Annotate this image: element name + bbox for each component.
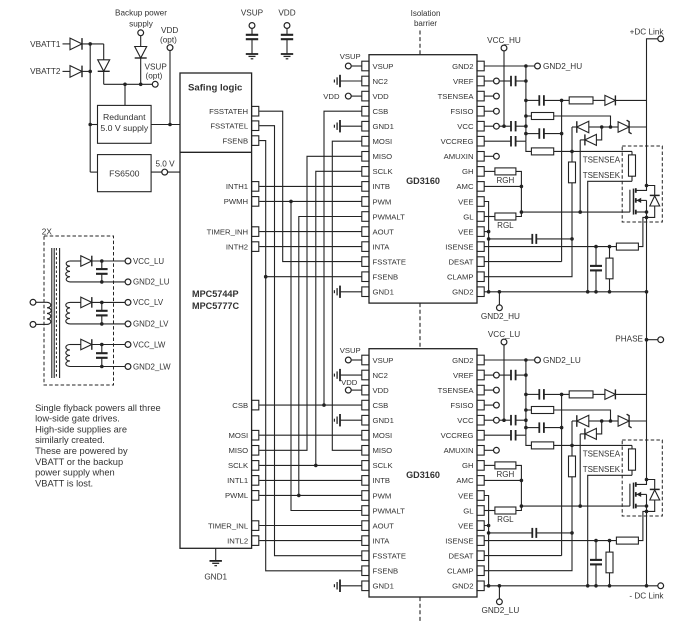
U1 left pin MISO (row 7) [362,152,369,162]
svg-text:FSENB: FSENB [373,273,399,282]
power module dashed box U2 [622,440,662,516]
svg-text:supply: supply [129,20,154,29]
resistor gate clamp upper U1 [531,113,553,120]
IGBT/MOSFET U1 module [629,190,631,212]
U1 left pin FSSTATE (row 14) [362,257,369,267]
wire U2 FSISO pin [485,404,494,406]
svg-text:ISENSE: ISENSE [445,242,473,251]
wire U2 VCCREG row [485,434,512,436]
svg-text:GND2: GND2 [452,356,473,365]
svg-text:TIMER_INH: TIMER_INH [207,227,248,236]
diode DESAT high-voltage U1 [593,99,605,101]
capacitor VCCREG-GND2 U2 [510,430,512,441]
svg-text:These are powered by: These are powered by [35,446,128,456]
diode D2 VBATT2 [63,70,71,72]
svg-text:- DC Link: - DC Link [629,592,664,601]
svg-text:GND1: GND1 [373,582,394,591]
svg-text:Backup power: Backup power [115,9,167,18]
U2 VCC test point [494,417,500,423]
GND2_LU terminal [535,357,541,363]
GND2 bus jog to clamp resistor U1 [526,141,532,151]
wire shunt to source U1 [638,217,646,246]
U2 GND1 ground (upper) [340,419,362,421]
transformer core [51,248,53,378]
wire MOSI to U2 [259,434,361,436]
diode D1 VBATT1 [63,43,71,45]
U1 left pin GND1 (row 16) [362,287,369,297]
svg-text:GND2_HU: GND2_HU [543,62,582,71]
TSENSEA wire U1 [572,150,632,152]
U2 right pin VCC (row 5) [477,415,484,425]
diode rectifier VCC_LU [70,260,81,262]
diode D4 backup [140,36,142,47]
diode D3 to VSUP opt [103,44,105,60]
svg-text:GL: GL [463,506,474,515]
svg-text:(opt): (opt) [160,35,177,44]
wire INTH1 to U1 INTB [259,185,361,187]
U2 VREF test point [494,372,500,378]
wire DESAT vertical U1 [561,100,563,261]
wire FSSTATEH net [259,111,361,261]
wire U1 VEE2 row [485,231,489,233]
svg-text:High-side supplies are: High-side supplies are [35,424,127,434]
-DC Link terminal [658,583,664,589]
U2 left pin VDD (row 3) [362,385,369,395]
svg-text:VCC_LW: VCC_LW [133,340,166,349]
U1 right pin AMUXIN (row 7) [477,152,484,162]
wire PWML net [259,494,361,496]
U1 GND1 ground (lower) [340,291,362,293]
svg-text:VCCREG: VCCREG [441,431,474,440]
U2 right pin VEE (row 10) [477,491,484,501]
svg-text:GH: GH [462,167,474,176]
clamp resistor vertical U1 [569,162,576,183]
shunt resistor ISENSE U2 [616,537,638,544]
capacitor VCC-GND2 U1 [499,125,511,127]
U1 left pin INTA (row 13) [362,242,369,252]
wire FSENB to U1 [266,276,362,278]
wire VBATT to redundant supply [90,124,97,126]
wire VCC_LU rail [92,260,125,262]
svg-text:VSUP: VSUP [340,52,361,61]
wire shunt to source U2 [638,511,646,540]
svg-text:VSUP: VSUP [373,356,394,365]
wire PWML to U1 PWMALT [299,217,362,496]
capacitor filter VCC_LV [101,302,103,310]
svg-text:CSB: CSB [373,107,389,116]
wire U2 ISENSE row [485,540,617,542]
terminal backup power [138,30,144,36]
capacitor VEE-clamp U1 [489,238,533,240]
svg-text:VCC: VCC [457,122,474,131]
svg-text:DESAT: DESAT [448,551,473,560]
svg-text:TSENSEA: TSENSEA [438,92,475,101]
U2 right pin VREF (row 2) [477,370,484,380]
svg-text:MPC5777C: MPC5777C [192,301,239,311]
terminal 5.0V [162,169,168,175]
U2 left pin MOSI (row 6) [362,430,369,440]
U3 pin INTL1 [252,476,259,486]
U2 left pin GND1 (row 5) [362,415,369,425]
wire node to redundant supply [124,84,126,105]
U1 GND1 ground (upper) [340,125,362,127]
capacitor VREF-GND2 U2 [499,374,511,376]
svg-text:SCLK: SCLK [373,167,394,176]
wire VCC_LW rail [92,344,125,346]
wire clamp vertical to CLAMP pin U1 [485,239,573,277]
wire clamp D2 anode riser U1 [596,127,601,140]
svg-text:AMUXIN: AMUXIN [444,446,474,455]
resistor RGH U2 [485,464,495,466]
shunt resistor ISENSE U1 [616,243,638,250]
wire resistor row to zener row U1 [554,116,611,127]
transformer secondary winding VCC_LV [66,302,70,324]
svg-text:GND1: GND1 [373,288,394,297]
second cap row U1 [526,133,539,135]
svg-text:SCLK: SCLK [228,461,249,470]
U3 pin CSB [252,400,259,410]
terminal GND2_LW [125,364,131,370]
U1 left pin INTB (row 9) [362,182,369,192]
GND2_HU terminal [535,63,541,69]
zener clamp U1 [611,126,619,128]
GND2 bus vertical U1 [525,66,527,141]
resistor ISENSE divider U2 [609,541,611,553]
svg-text:5.0 V: 5.0 V [155,160,175,169]
transformer secondary winding VCC_LW [66,345,70,367]
wire U2 VEE2 row [485,525,489,527]
svg-text:FSISO: FSISO [450,401,473,410]
svg-text:GND2: GND2 [452,288,473,297]
clamp resistor vertical U2 [569,456,576,477]
wire U2 AMUXIN pin [485,449,494,451]
U3 pin FSSTATEL [252,121,259,131]
svg-text:INTA: INTA [373,242,391,251]
wire VSUP opt row [104,83,153,85]
ground for VDD cap [281,53,293,55]
U2 right pin AMUXIN (row 7) [477,446,484,456]
gate row wire U2 [521,505,630,507]
U1 right pin DESAT (row 14) [477,257,484,267]
U1 right pin VCCREG (row 6) [477,136,484,146]
svg-text:GND2: GND2 [452,582,473,591]
svg-text:GD3160: GD3160 [406,470,440,480]
wire FS6500 5.0V output [151,171,180,173]
microcontroller U3 MPC5744P/MPC5777C body [180,73,252,548]
svg-text:AMC: AMC [456,182,474,191]
U2 right pin FSISO (row 4) [477,400,484,410]
phase node bus [646,217,648,479]
TSENSEK wire U2 [588,475,632,586]
svg-text:FSENB: FSENB [373,567,399,576]
svg-text:MISO: MISO [373,446,393,455]
U2 left pin PWMALT (row 11) [362,506,369,516]
capacitor VREF-GND2 U1 [499,80,511,82]
resistor DESAT series U1 [569,97,593,104]
wire FSENB net [259,141,361,571]
U2 left pin INTA (row 13) [362,536,369,546]
svg-text:AOUT: AOUT [373,521,395,530]
U2 VSUP terminal [345,357,351,363]
wire U1 AMC row [485,185,522,187]
U2 right pin DESAT (row 14) [477,551,484,561]
U1 right pin VEE (row 12) [477,227,484,237]
svg-text:INTH2: INTH2 [226,242,248,251]
wire RGH to gate node U2 [516,465,522,480]
U2 right pin VCCREG (row 6) [477,430,484,440]
wire U1 FSISO pin [485,110,494,112]
svg-text:PWML: PWML [225,491,249,500]
VCC_LU terminal [501,339,507,345]
U3 pin PWML [252,491,259,501]
wire U1 VREF row [485,80,494,82]
wire gate node vertical U2 [520,480,522,506]
svg-text:INTL2: INTL2 [227,536,248,545]
wire INTL1 to U2 INTB [259,479,361,481]
svg-text:INTA: INTA [373,536,391,545]
svg-text:VCC_LU: VCC_LU [488,330,520,339]
wire CSB to U1 [324,111,362,405]
U2 right pin GND2 (row 16) [477,581,484,591]
DESAT blanking cap U1 [526,99,539,101]
U1 VDD terminal wire [351,95,361,97]
wire RGL to gate node U1 [516,212,522,216]
U2 VSUP terminal wire [351,359,361,361]
U2 GND1 ground (lower) [340,585,362,587]
freewheel diode U1 module [647,186,655,196]
wire VBATT2 to node [82,70,90,72]
capacitor VEE-clamp U2 [489,532,533,534]
U2 TSENSEA test point [494,387,500,393]
U3 pin INTL2 [252,536,259,546]
wire clamp vertical to CLAMP pin U2 [485,533,573,571]
U1 VSUP terminal [345,63,351,69]
gate driver IC U1 GD3160 body [369,55,477,303]
U2 FSISO test point [494,402,500,408]
svg-text:2X: 2X [42,227,53,236]
gate row wire U1 [521,211,630,213]
resistor GND2-to-clamp node U1 [531,148,553,155]
resistor GND2-to-clamp node U2 [531,442,553,449]
wire VBATT1 to node [82,43,104,45]
svg-text:VSUP: VSUP [241,9,264,18]
U2 left pin FSSTATE (row 14) [362,551,369,561]
svg-text:FSENB: FSENB [222,136,248,145]
svg-text:GL: GL [463,212,474,221]
transformer dashed box [44,236,114,385]
U1 right pin AMC (row 9) [477,182,484,192]
svg-text:GD3160: GD3160 [406,176,440,186]
U2 left pin FSENB (row 15) [362,566,369,576]
svg-text:RGH: RGH [497,176,515,185]
U2 NC2 ground [340,374,362,376]
svg-text:Safing logic: Safing logic [188,82,243,93]
wire resistor row to zener row U2 [554,410,611,421]
svg-text:VBATT is lost.: VBATT is lost. [35,478,93,488]
U3 pin PWMH [252,197,259,207]
transformer primary winding [47,302,51,324]
wire U2 DESAT row [485,555,562,557]
U1 VCC test point [494,123,500,129]
wire clamp D2 cathode to gate U1 [579,140,581,212]
svg-text:ISENSE: ISENSE [445,536,473,545]
svg-text:FSSTATEH: FSSTATEH [209,107,248,116]
second cap row U2 [526,427,539,429]
U1 NC2 ground [340,80,362,82]
U2 left pin VSUP (row 1) [362,355,369,365]
U1 AMUXIN test point [494,153,500,159]
temp sense diode resistor U2 [631,445,633,449]
svg-text:MPC5744P: MPC5744P [192,289,239,299]
U1 VDD terminal [345,93,351,99]
U1 left pin SCLK (row 8) [362,167,369,177]
capacitor VCCREG-GND2 U1 [510,136,512,147]
U1 left pin AOUT (row 12) [362,227,369,237]
GND2_LU lower terminal [498,586,500,599]
svg-text:INTB: INTB [373,476,391,485]
wire U1 VCCREG row [485,140,512,142]
PHASE terminal [647,339,658,341]
U1 FSISO test point [494,108,500,114]
svg-text:SCLK: SCLK [373,461,394,470]
IGBT/MOSFET U2 module [629,484,631,506]
svg-text:VCC_LU: VCC_LU [133,257,164,266]
svg-text:VSUP: VSUP [145,62,168,71]
diode rectifier VCC_LV [70,301,81,303]
svg-text:Redundant: Redundant [103,112,146,122]
svg-text:MISO: MISO [228,446,248,455]
capacitor ISENSE filter U2 [595,541,597,560]
U1 right pin FSISO (row 4) [477,106,484,116]
U1 left pin NC2 (row 2) [362,76,369,86]
U1 right pin GND2 (row 16) [477,287,484,297]
svg-text:RGL: RGL [497,221,514,230]
resistor ISENSE divider U1 [609,247,611,259]
wire VCC_LU to VCC row [503,345,505,420]
diode rectifier VCC_LW [70,344,81,346]
wire clamp D2 anode riser U2 [596,421,601,434]
resistor RGL U2 [485,510,495,512]
svg-text:MOSI: MOSI [373,137,393,146]
U1 VREF test point [494,78,500,84]
U2 right pin AMC (row 9) [477,476,484,486]
U2 right pin CLAMP (row 15) [477,566,484,576]
svg-text:Single flyback powers all thre: Single flyback powers all three [35,403,161,413]
capacitor filter VCC_LW [101,345,103,354]
svg-text:CSB: CSB [232,401,248,410]
diode clamp D2 U1 [580,139,585,141]
wire redundant supply output [151,124,180,126]
wire PWMH to U2 PWMALT [291,201,362,510]
ground for VSUP cap [246,53,258,55]
wire VBATT to FS6500 [90,171,97,173]
svg-text:INTL1: INTL1 [227,476,248,485]
U1 left pin MOSI (row 6) [362,136,369,146]
U2 right pin GL (row 11) [477,506,484,516]
U1 right pin GH (row 8) [477,167,484,177]
U1 right pin GL (row 11) [477,212,484,222]
U2 left pin SCLK (row 8) [362,461,369,471]
svg-text:FSSTATE: FSSTATE [373,257,406,266]
U2 VDD terminal [345,387,351,393]
wire INTL2 to U2 INTA [259,540,361,542]
svg-text:CLAMP: CLAMP [447,273,474,282]
U1 TSENSEA test point [494,93,500,99]
svg-text:NC2: NC2 [373,371,388,380]
svg-text:PWM: PWM [373,197,392,206]
U2 right pin GH (row 8) [477,461,484,471]
svg-text:VSUP: VSUP [373,62,394,71]
svg-text:VDD: VDD [341,378,358,387]
wire U1 AMUXIN pin [485,155,494,157]
U2 right pin GND2 (row 1) [477,355,484,365]
isolation barrier dashed line [419,31,421,55]
U1 right pin GND2 (row 1) [477,61,484,71]
svg-text:barrier: barrier [414,19,437,28]
wire clamp D1 cathode vertical U1 [571,127,573,151]
resistor DESAT series U2 [569,391,593,398]
svg-text:VCCREG: VCCREG [441,137,474,146]
terminal VCC_LW [125,342,131,348]
svg-text:TSENSEA: TSENSEA [583,155,621,164]
U2 left pin MISO (row 7) [362,446,369,456]
GND2 bus jog to clamp resistor U2 [526,435,532,445]
wire U1 GND2 row to GND2_HU [485,65,535,67]
svg-text:PWMH: PWMH [224,197,248,206]
svg-text:VSUP: VSUP [340,346,361,355]
svg-text:TIMER_INL: TIMER_INL [208,521,249,530]
svg-text:VEE: VEE [458,491,473,500]
resistor gate clamp upper U2 [531,407,553,414]
svg-text:INTB: INTB [373,182,391,191]
U2 left pin NC2 (row 2) [362,370,369,380]
freewheel diode U2 module [647,480,655,490]
svg-text:GND2_LV: GND2_LV [133,320,169,329]
safing logic divider [180,151,252,153]
svg-text:VCC_HU: VCC_HU [487,36,521,45]
svg-text:CSB: CSB [373,401,389,410]
U2 left pin GND1 (row 16) [362,581,369,591]
FS6500 box [98,155,152,192]
wire clamp D1 cathode vertical U2 [571,421,573,445]
U2 left pin PWM (row 10) [362,491,369,501]
svg-text:TSENSEA: TSENSEA [583,449,621,458]
wire RGH to gate node U1 [516,171,522,186]
svg-text:VCC: VCC [457,416,474,425]
svg-text:Isolation: Isolation [411,9,441,18]
U1 right pin VREF (row 2) [477,76,484,86]
U3 pin SCLK [252,461,259,471]
capacitor VCC-GND2 U2 [499,419,511,421]
U1 left pin PWM (row 10) [362,197,369,207]
svg-text:VREF: VREF [453,371,474,380]
U2 VDD terminal wire [351,389,361,391]
svg-text:GND2_LU: GND2_LU [543,356,581,365]
svg-text:RGL: RGL [497,515,514,524]
svg-text:VEE: VEE [458,227,473,236]
wire VBATT bus vertical [89,44,91,172]
U1 right pin TSENSEA (row 3) [477,91,484,101]
power module dashed box U1 [622,146,662,222]
svg-text:FSSTATEL: FSSTATEL [210,122,248,131]
svg-text:INTH1: INTH1 [226,182,248,191]
ground GND1 under U3 [215,548,217,561]
svg-text:VDD: VDD [373,92,390,101]
capacitor filter VCC_LU [101,261,103,269]
wire SCLK net [259,464,361,466]
wire RGL to gate node U2 [516,506,522,510]
svg-text:VEE: VEE [458,521,473,530]
